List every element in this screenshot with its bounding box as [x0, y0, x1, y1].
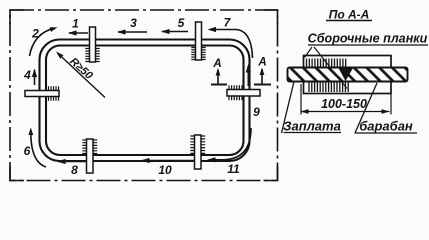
svg-text:9: 9: [253, 105, 260, 119]
upper tack weld comb: [307, 59, 346, 68]
svg-text:7: 7: [224, 16, 232, 30]
svg-text:4: 4: [23, 68, 31, 82]
leader to drum (baraban): [355, 83, 377, 133]
drum sheet boundary frame (dash-dot): [10, 10, 278, 181]
weld direction arrow segment 8: [57, 159, 86, 164]
weld direction arrow segment 9 (up, on right seam): [246, 64, 251, 86]
svg-text:2: 2: [31, 27, 39, 41]
tack plate bottom-right: [190, 135, 205, 169]
tack plate left: [25, 86, 59, 100]
weld direction arrow segment 3: [117, 29, 147, 34]
tack plate top-right: [191, 22, 205, 60]
label baraban: [355, 119, 418, 134]
tack plate bottom-left: [82, 139, 97, 173]
svg-text:1: 1: [72, 17, 79, 31]
dimension line 100-150: [301, 109, 390, 114]
svg-text:Заплата: Заплата: [283, 119, 341, 134]
weld direction arrow segment 10: [141, 158, 194, 163]
svg-text:барабан: барабан: [359, 119, 413, 134]
patch weld seam inner line: [46, 46, 244, 156]
leader to patch (Zaplata): [282, 82, 295, 134]
svg-text:Сборочные планки: Сборочные планки: [308, 32, 428, 46]
section title line (Po A-A): [326, 8, 372, 22]
svg-text:A: A: [212, 58, 221, 70]
leader lines from assembly plates label: [305, 47, 348, 89]
section mark A right: [254, 57, 271, 85]
tack plate top-left: [85, 27, 99, 62]
tack plate right: [227, 85, 260, 100]
weld direction arrow segment 2 (curved over top-left corner): [30, 27, 58, 56]
weld direction arrow segment 11 (curved lower-right corner): [207, 128, 251, 162]
section mark A left: [211, 58, 227, 85]
svg-text:6: 6: [24, 144, 31, 158]
label Zaplata: [283, 119, 341, 134]
weld direction arrow segment 1: [68, 30, 88, 35]
weld direction arrow segment 5: [161, 29, 188, 34]
svg-text:3: 3: [130, 16, 137, 30]
weld direction arrow segment 6 (curved lower-left corner): [28, 128, 46, 168]
weld direction arrow segment 4: [32, 69, 37, 86]
svg-text:10: 10: [158, 163, 172, 177]
svg-text:По A-A: По A-A: [329, 8, 370, 22]
svg-text:5: 5: [178, 16, 185, 30]
assembly plate rectangle: [304, 56, 392, 94]
radius leader line R>=50: [56, 52, 105, 98]
label assembly plates (Sborochnye planki): [308, 32, 428, 46]
patch weld seam outer line: [40, 40, 250, 162]
lower tack weld comb: [309, 82, 348, 92]
svg-text:100-150: 100-150: [321, 97, 367, 111]
butt weld (filled) between patch and drum: [339, 68, 354, 81]
svg-text:A: A: [257, 57, 266, 69]
svg-text:8: 8: [71, 163, 78, 177]
svg-text:11: 11: [227, 162, 240, 176]
dimension extension lines: [301, 84, 391, 115]
weld direction arrow segment 7 (curved over top-right corner): [208, 27, 253, 58]
